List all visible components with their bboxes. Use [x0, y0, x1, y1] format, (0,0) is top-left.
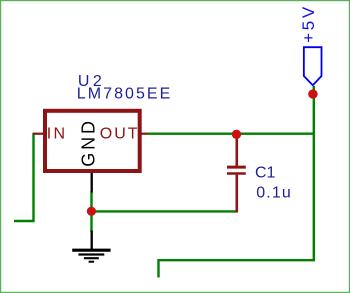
svg-text:0.1u: 0.1u: [256, 185, 292, 202]
svg-text:C1: C1: [255, 165, 276, 182]
svg-text:+5V: +5V: [299, 4, 318, 43]
svg-text:IN: IN: [47, 125, 67, 142]
svg-text:GND: GND: [79, 118, 99, 167]
svg-text:OUT: OUT: [100, 125, 140, 142]
svg-text:LM7805EE: LM7805EE: [77, 85, 173, 102]
